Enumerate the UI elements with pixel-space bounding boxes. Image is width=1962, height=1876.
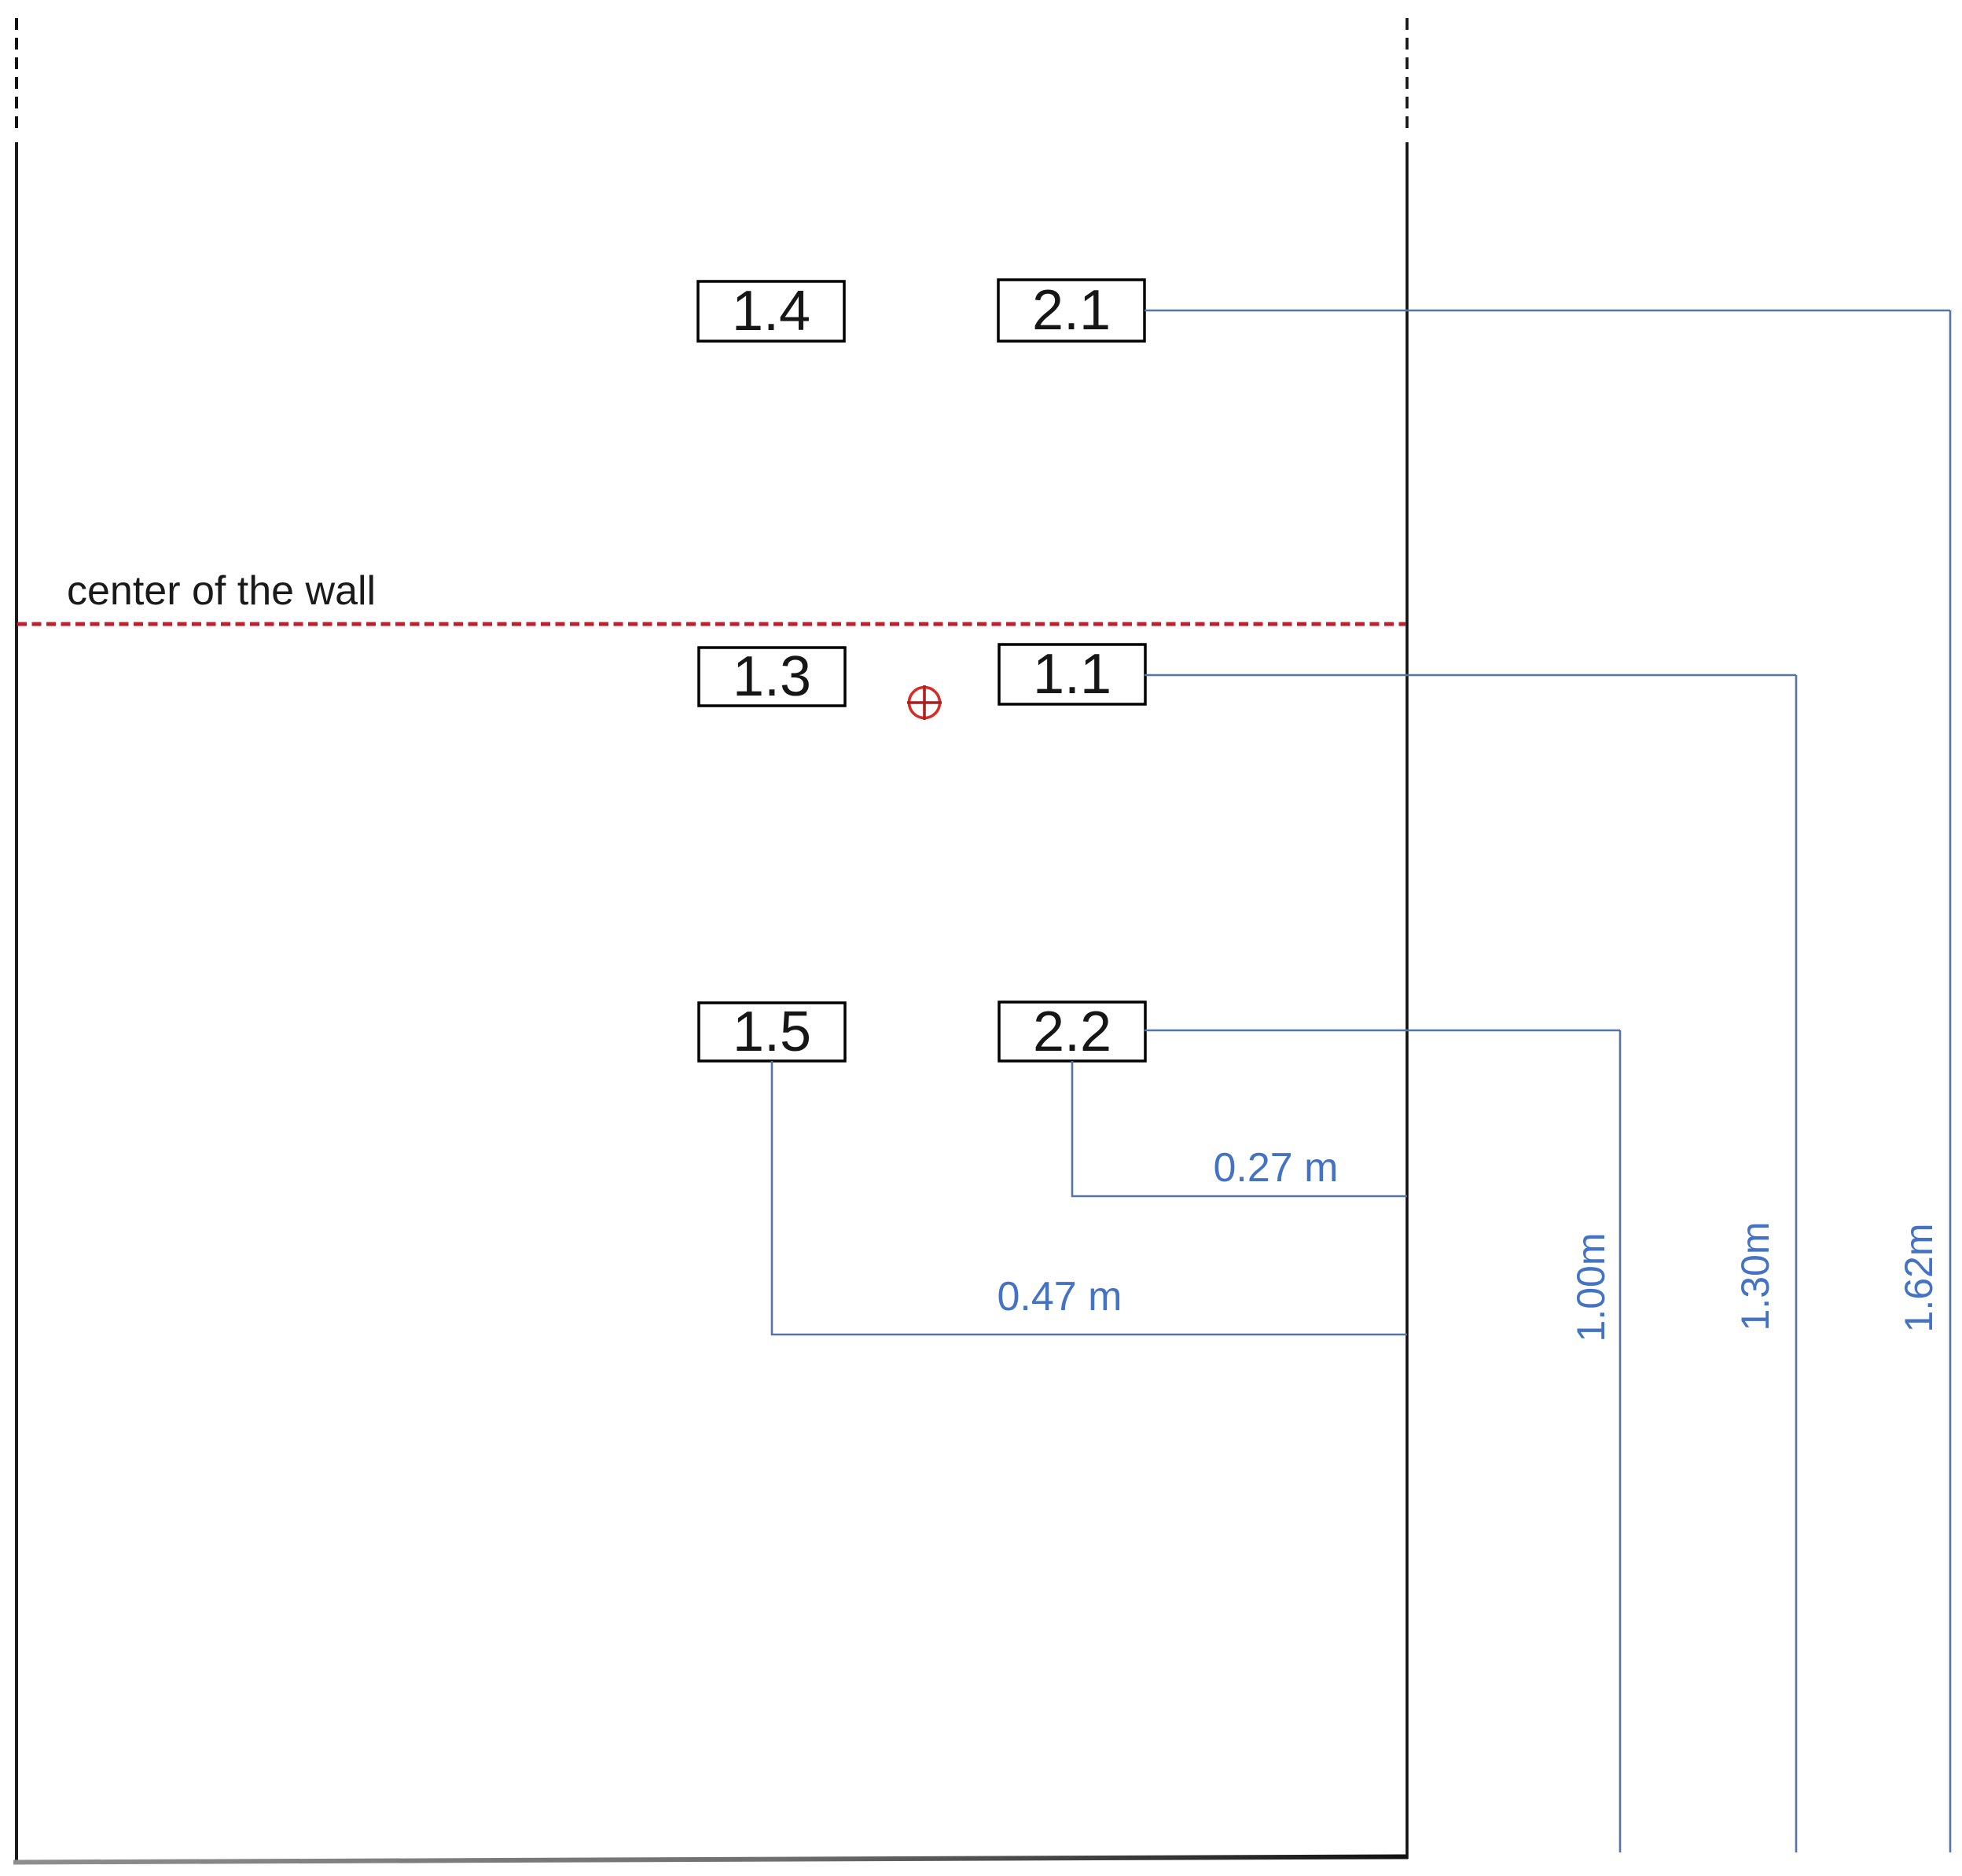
red target marker (circle-plus) [907, 685, 942, 720]
svg-text:2.1: 2.1 [1032, 279, 1111, 342]
dimension leader 1.1 (1.30m) horizontal [1144, 674, 1796, 677]
sensor box 1.4 [698, 280, 844, 343]
dimension leader 1.1 (1.30m) vertical [1795, 675, 1798, 1852]
svg-text:center of the wall: center of the wall [67, 568, 376, 614]
wall bottom edge line [13, 1857, 1408, 1863]
svg-text:1.1: 1.1 [1033, 643, 1111, 706]
wall corner vertical line [1405, 142, 1409, 1859]
dimension leader 2.2 bottom (0.27 m) [1072, 1061, 1407, 1196]
dimension leader 2.1 (1.62m) vertical [1949, 310, 1952, 1852]
svg-text:1.30m: 1.30m [1733, 1222, 1777, 1331]
svg-text:1.00m: 1.00m [1569, 1233, 1613, 1342]
wall left edge dashed continuation (top) [15, 18, 18, 134]
sensor box 2.2 [999, 1000, 1145, 1063]
svg-text:2.2: 2.2 [1033, 1000, 1111, 1063]
red dashed center line of the wall [17, 622, 1405, 626]
dimension leader 2.2 (1.00m) horizontal [1144, 1030, 1620, 1032]
wall corner edge dashed continuation (top) [1405, 18, 1409, 134]
svg-text:1.4: 1.4 [732, 280, 810, 343]
sensor box 1.1 [999, 643, 1145, 706]
sensor box 1.3 [699, 645, 845, 708]
svg-text:1.3: 1.3 [733, 645, 811, 708]
dimension leader 2.2 (1.00m) vertical [1619, 1030, 1622, 1852]
sensor box 1.5 [699, 1000, 845, 1063]
sensor box 2.1 [998, 279, 1144, 342]
wall left edge line [15, 142, 18, 1861]
svg-text:0.27 m: 0.27 m [1214, 1145, 1339, 1191]
svg-text:0.47 m: 0.47 m [998, 1274, 1122, 1320]
dimension leader 1.5 bottom (0.47 m) [772, 1061, 1407, 1334]
svg-text:1.5: 1.5 [733, 1000, 811, 1063]
svg-text:1.62m: 1.62m [1897, 1224, 1941, 1333]
dimension leader 2.1 (1.62m) horizontal [1144, 310, 1950, 312]
